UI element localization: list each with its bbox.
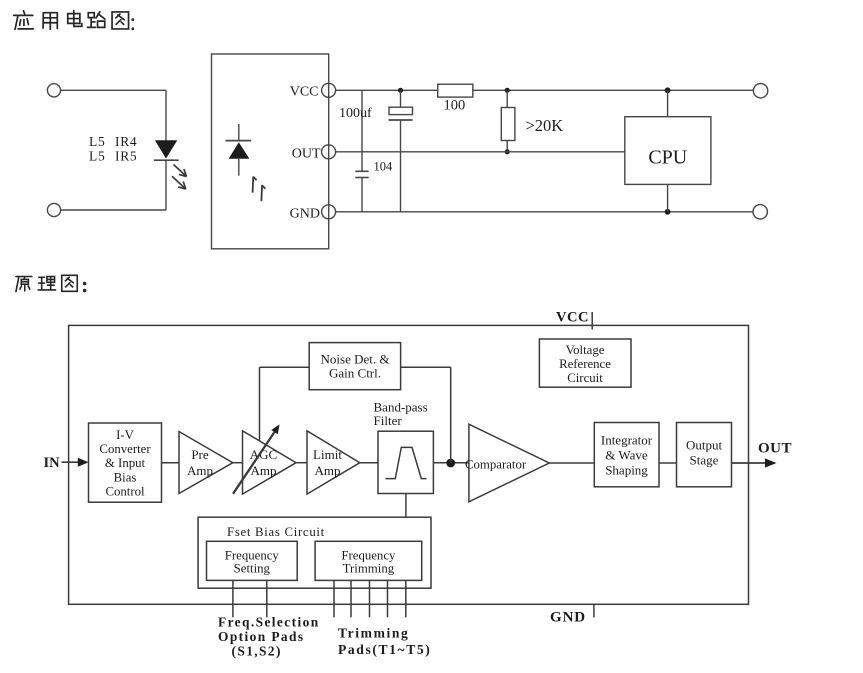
wire T5 pad stub bbox=[405, 580, 407, 617]
svg-text:Pre: Pre bbox=[191, 447, 209, 462]
IC outline box bbox=[69, 325, 749, 604]
svg-text:Bias: Bias bbox=[114, 470, 137, 484]
node VCC/CPU bbox=[665, 87, 671, 93]
wire T4 pad stub bbox=[387, 580, 389, 617]
svg-text:Setting: Setting bbox=[234, 562, 271, 576]
wire bottom-left horizontal bbox=[61, 209, 166, 211]
terminal right-top bbox=[753, 84, 767, 98]
svg-text:Stage: Stage bbox=[690, 453, 719, 468]
wire R2 upper lead bbox=[506, 90, 508, 107]
pin VCC bbox=[290, 83, 336, 99]
node OUT/R2 bbox=[505, 149, 510, 154]
svg-text:Freq.Selection: Freq.Selection bbox=[218, 614, 320, 629]
capacitor 100uf (electrolytic) bbox=[389, 107, 413, 120]
amplifier AGC Amp bbox=[243, 431, 297, 494]
svg-text:Amp: Amp bbox=[187, 463, 213, 478]
svg-text:Comparator: Comparator bbox=[465, 457, 527, 471]
svg-text:& Wave: & Wave bbox=[605, 448, 648, 463]
block I-V Converter & Input Bias Control bbox=[89, 423, 162, 502]
svg-text:Option Pads: Option Pads bbox=[218, 629, 304, 644]
wire CPU GND lead bbox=[667, 184, 669, 211]
wire T2 pad stub bbox=[350, 580, 352, 617]
svg-text:IN: IN bbox=[44, 455, 61, 471]
svg-text:Gain Ctrl.: Gain Ctrl. bbox=[329, 366, 381, 381]
svg-text:Control: Control bbox=[105, 485, 145, 499]
svg-text:Limit: Limit bbox=[313, 447, 342, 462]
wire preamp to AGC bbox=[233, 462, 243, 464]
svg-text:Trimming: Trimming bbox=[343, 562, 395, 576]
svg-text:104: 104 bbox=[374, 160, 394, 174]
node VCC/R2 bbox=[505, 88, 510, 93]
svg-text:GND: GND bbox=[290, 207, 320, 222]
wire integrator to output stage bbox=[659, 462, 677, 464]
wire top-left horizontal bbox=[61, 89, 166, 91]
svg-text:Frequency: Frequency bbox=[225, 549, 280, 563]
wire LED anode lead bbox=[165, 90, 167, 140]
wire OUT arrow bbox=[732, 458, 777, 467]
svg-text:Converter: Converter bbox=[99, 442, 151, 456]
svg-text:Amp: Amp bbox=[315, 463, 341, 478]
svg-text:Amp: Amp bbox=[251, 463, 277, 478]
LED D1 (emitter diode) bbox=[154, 140, 179, 160]
terminal right-bottom bbox=[753, 205, 767, 219]
wire AGC to limit bbox=[296, 462, 307, 464]
photodiode light arrows bbox=[253, 177, 266, 202]
wire T1 pad stub bbox=[333, 580, 335, 617]
title text 原理图： bbox=[16, 275, 86, 292]
wire R2 lower lead bbox=[506, 141, 508, 152]
svg-text:GND: GND bbox=[550, 610, 586, 626]
label Band-pass Filter bbox=[374, 400, 428, 428]
wire IN arrow bbox=[62, 458, 89, 467]
block Voltage Reference Circuit bbox=[539, 339, 631, 387]
wire comparator to integrator bbox=[549, 462, 594, 464]
resistor R2 >20K bbox=[501, 108, 515, 141]
svg-text:VCC: VCC bbox=[556, 310, 589, 326]
wire box1 to preamp bbox=[162, 462, 180, 464]
svg-text:Output: Output bbox=[686, 437, 723, 452]
CPU block bbox=[625, 117, 711, 185]
svg-text:VCC: VCC bbox=[290, 85, 319, 100]
svg-text:OUT: OUT bbox=[758, 440, 792, 456]
wire noise box to AGC bbox=[260, 366, 310, 368]
wire limit to BPF bbox=[360, 462, 378, 464]
amplifier Limit Amp bbox=[307, 431, 360, 494]
wire feedback up from junction bbox=[450, 367, 452, 463]
comparator U2 bbox=[465, 424, 549, 502]
block Noise Det. & Gain Ctrl. bbox=[309, 343, 400, 390]
label Trimming Pads(T1~T5) bbox=[338, 626, 431, 658]
wire BPF to Fset bias bbox=[405, 494, 407, 518]
capacitor 104 bbox=[355, 171, 368, 177]
pin GND bbox=[290, 205, 336, 222]
svg-text:Voltage: Voltage bbox=[566, 343, 605, 357]
svg-text:I-V: I-V bbox=[116, 428, 135, 442]
block Frequency Setting bbox=[207, 541, 298, 580]
wire T3 pad stub bbox=[369, 580, 371, 617]
block Band-pass Filter bbox=[378, 431, 433, 493]
svg-text:Shaping: Shaping bbox=[605, 463, 648, 478]
wire BPF to comparator bbox=[433, 462, 469, 464]
svg-text:Reference: Reference bbox=[559, 357, 611, 371]
pin OUT bbox=[292, 145, 336, 162]
wire LED cathode lead bbox=[165, 160, 167, 210]
amplifier Pre Amp bbox=[179, 432, 233, 494]
svg-text:CPU: CPU bbox=[648, 147, 687, 169]
wire cap-100uf branch lower bbox=[400, 120, 402, 212]
resistor R1 100 bbox=[438, 84, 473, 97]
svg-text:100: 100 bbox=[444, 98, 466, 114]
svg-text:Integrator: Integrator bbox=[601, 432, 653, 447]
svg-text:>20K: >20K bbox=[526, 116, 564, 135]
svg-text:100uf: 100uf bbox=[339, 106, 372, 121]
terminal left-top bbox=[47, 84, 60, 97]
node GND/CPU bbox=[665, 209, 671, 215]
photodiode D2 bbox=[226, 124, 252, 176]
svg-text:Noise Det. &: Noise Det. & bbox=[321, 352, 390, 367]
terminal left-bottom bbox=[47, 203, 60, 216]
LED light arrows bbox=[172, 165, 187, 190]
wire CPU VCC lead bbox=[667, 90, 669, 116]
block Fset Bias Circuit bbox=[198, 517, 431, 588]
wire feedback to noise box bbox=[401, 366, 451, 368]
node VCC/C104 bbox=[398, 88, 403, 93]
wire cap-104 branch upper bbox=[361, 90, 363, 171]
AGC adjust arrow bbox=[233, 424, 280, 493]
svg-text:Filter: Filter bbox=[374, 413, 403, 428]
svg-text:& Input: & Input bbox=[105, 456, 146, 470]
wire VCC rail bbox=[336, 89, 438, 91]
wire GND rail bbox=[336, 211, 754, 213]
wire S2 pad stub bbox=[266, 580, 268, 617]
node BPF/comparator junction bbox=[446, 459, 455, 468]
wire OUT to CPU bbox=[336, 151, 625, 153]
svg-text:Pads(T1~T5): Pads(T1~T5) bbox=[338, 642, 431, 658]
label Freq.Selection Option Pads (S1,S2) bbox=[218, 614, 320, 658]
svg-text:OUT: OUT bbox=[292, 147, 321, 162]
svg-text:Circuit: Circuit bbox=[567, 371, 603, 385]
block Frequency Trimming bbox=[315, 541, 422, 580]
block Integrator & Wave Shaping bbox=[594, 423, 659, 487]
wire cap-100uf branch upper bbox=[400, 90, 402, 107]
svg-text:Fset Bias Circuit: Fset Bias Circuit bbox=[227, 525, 325, 539]
VCC pin tick bbox=[591, 312, 593, 330]
title text 应用电路图: bbox=[14, 11, 134, 31]
receiver module box bbox=[212, 54, 329, 249]
GND pin tick bbox=[593, 604, 595, 617]
svg-text:(S1,S2): (S1,S2) bbox=[232, 643, 282, 658]
block Output Stage bbox=[677, 423, 732, 487]
wire S1 pad stub bbox=[232, 580, 234, 617]
svg-text:Frequency: Frequency bbox=[341, 549, 396, 563]
svg-text:Trimming: Trimming bbox=[338, 626, 409, 641]
wire cap-104 branch lower bbox=[361, 178, 363, 212]
